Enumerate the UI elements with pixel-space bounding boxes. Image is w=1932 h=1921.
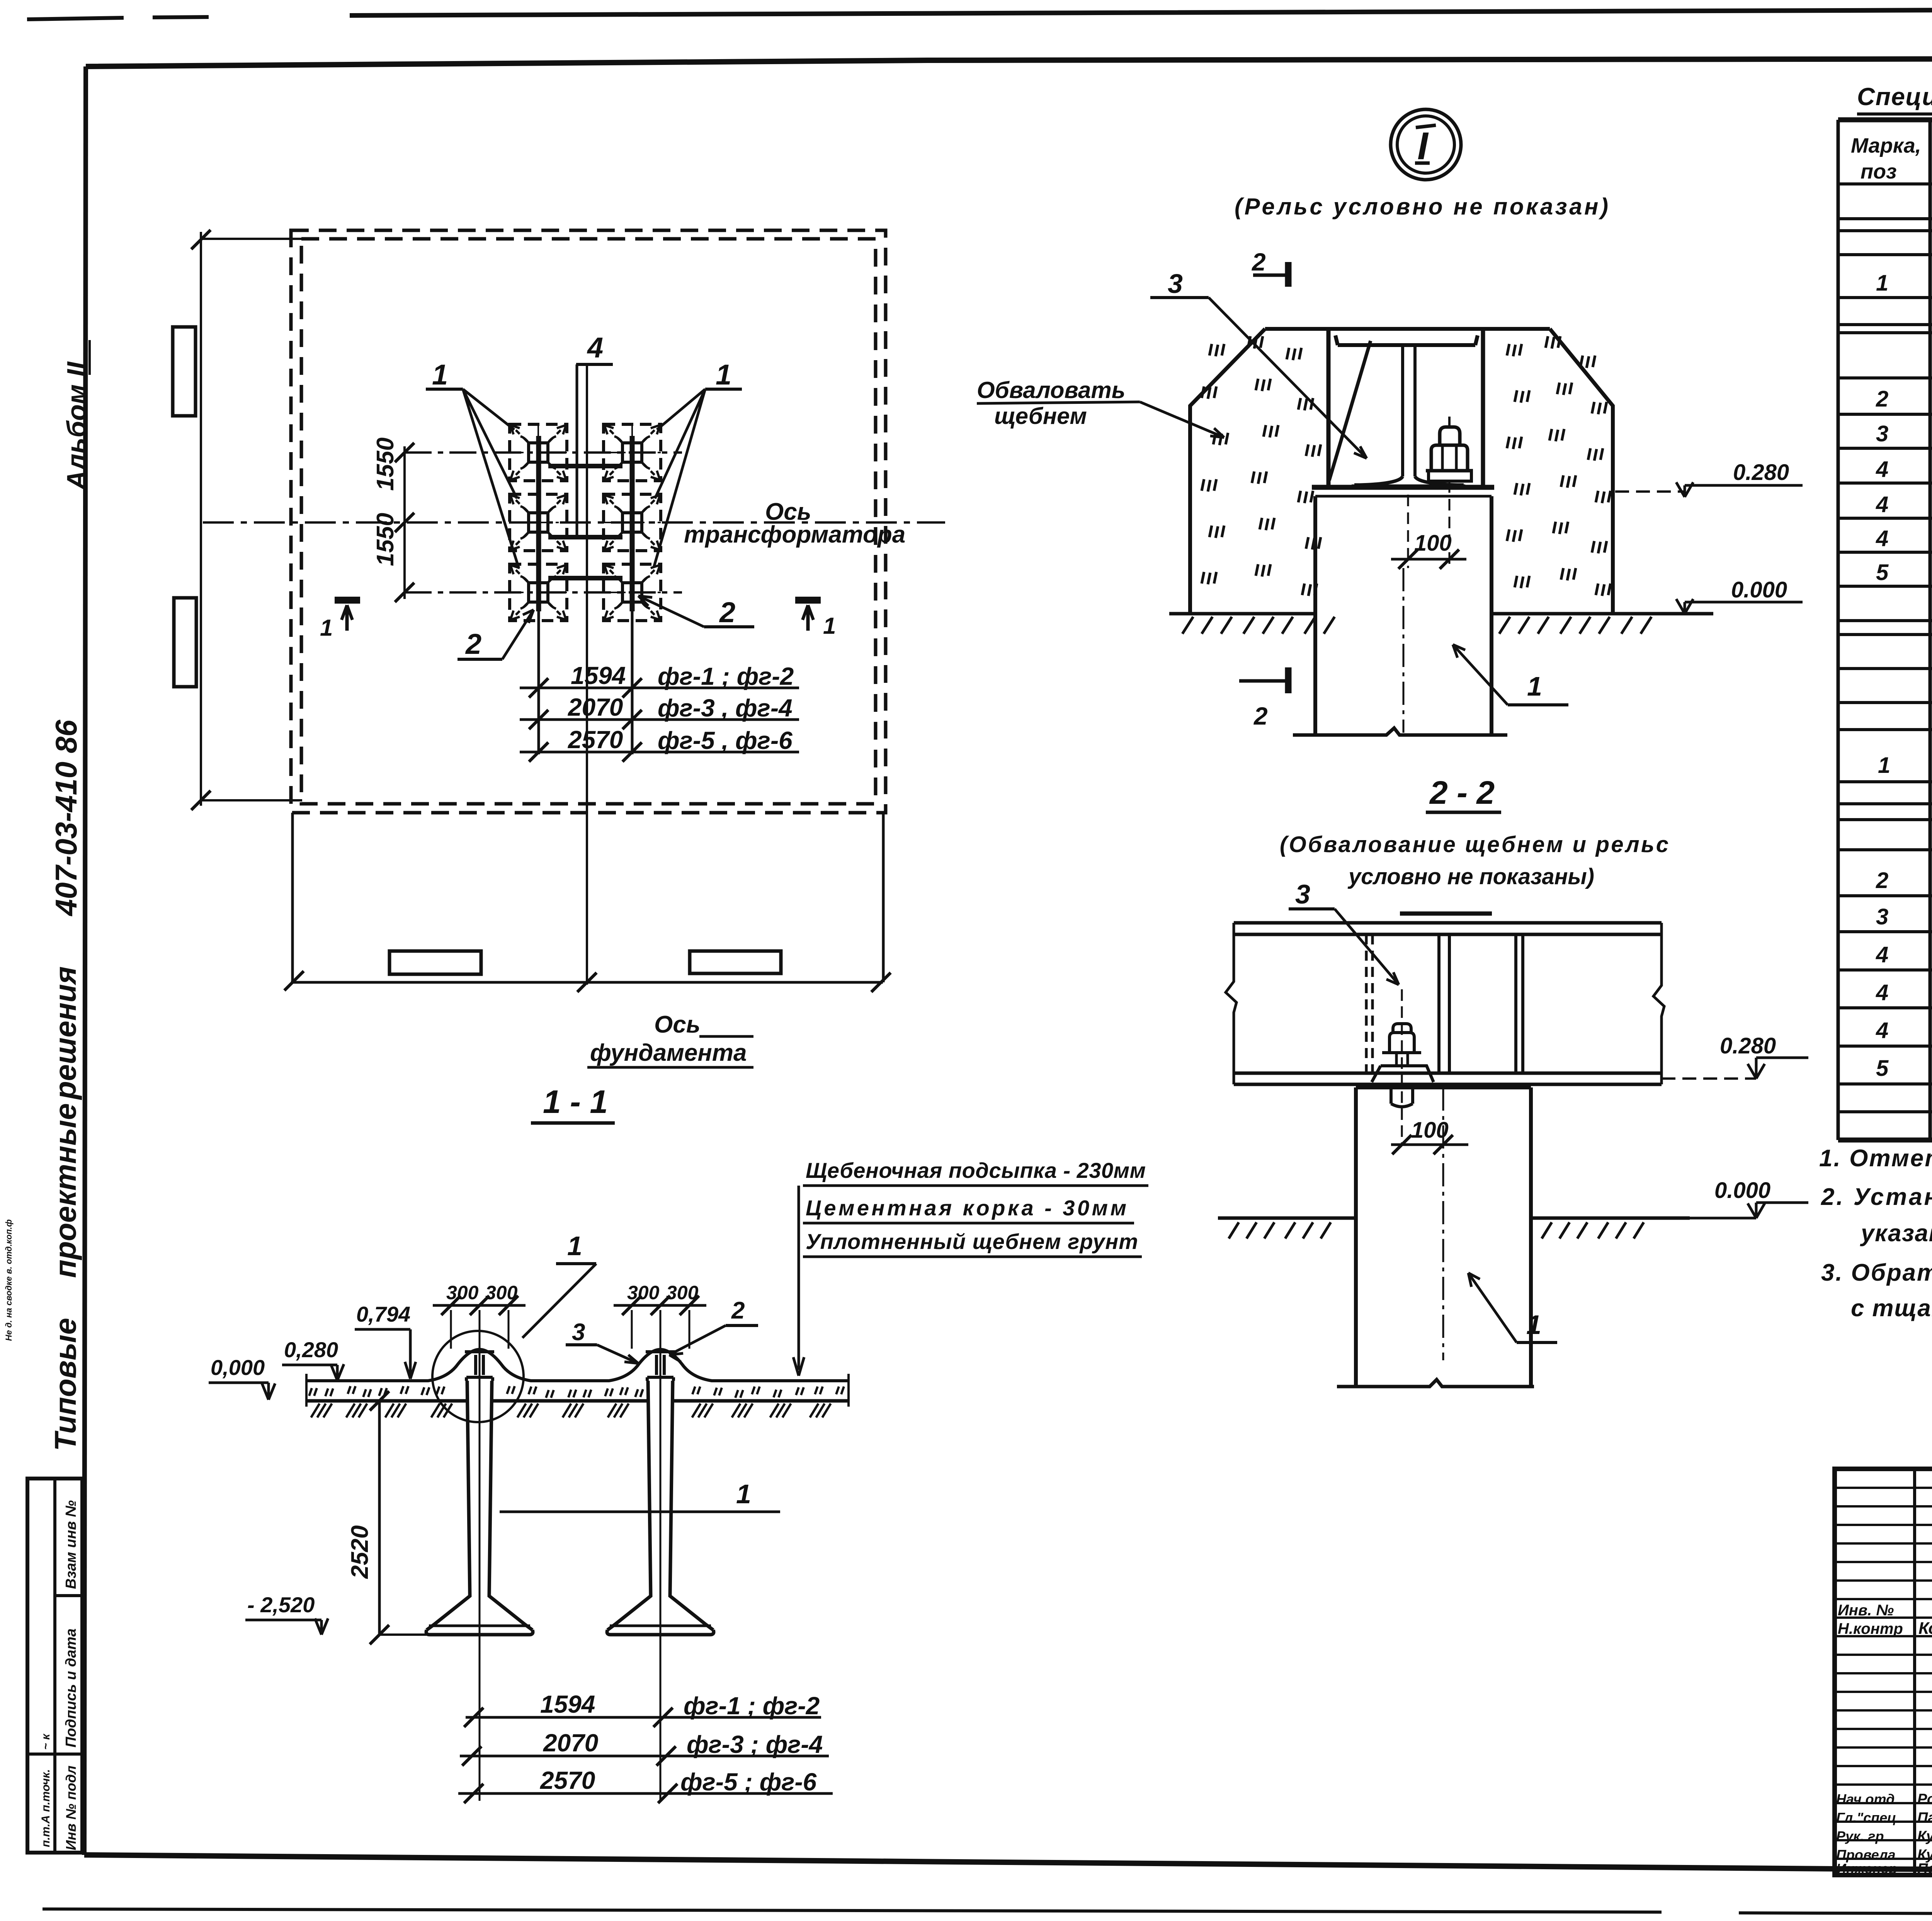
svg-text:указаниями СНиП3.02.01-83, п 2: указаниями СНиП3.02.01-83, п 2,1; 2,2; 2… — [1860, 1220, 1932, 1247]
svg-text:4: 4 — [1876, 942, 1888, 967]
svg-text:100: 100 — [1414, 531, 1452, 556]
svg-text:- 2,520: - 2,520 — [247, 1593, 315, 1617]
dim row 1594 — [466, 1716, 821, 1719]
ground line right — [1492, 612, 1713, 616]
gravel layer left end — [305, 1374, 308, 1407]
right post — [607, 1381, 714, 1635]
svg-text:2 - 2: 2 - 2 — [1429, 774, 1495, 811]
foundation sides 2-2 — [1356, 1087, 1531, 1385]
svg-text:фг-5 , фг-6: фг-5 , фг-6 — [658, 727, 793, 754]
rail channel walls — [1328, 331, 1483, 487]
svg-text:1: 1 — [1876, 271, 1888, 296]
mini table divider left col — [27, 1753, 55, 1756]
svg-text:1. Отметка 0,000 соответствует: 1. Отметка 0,000 соответствует отметке п… — [1819, 1145, 1932, 1172]
foundation top 2-2 — [1356, 1086, 1531, 1089]
foundation axis vertical — [586, 364, 588, 985]
svg-text:5: 5 — [1876, 1056, 1889, 1081]
elevation 0.280 2-2 — [1662, 1077, 1756, 1080]
svg-text:условно не показаны): условно не показаны) — [1347, 864, 1594, 889]
svg-text:(Рельс условно не показан): (Рельс условно не показан) — [1235, 194, 1608, 219]
gravel top line 0.280 with mounds — [306, 1349, 849, 1381]
anchor bolt — [1448, 417, 1451, 427]
svg-text:3: 3 — [1168, 269, 1183, 299]
dim row 2570 — [458, 1792, 833, 1795]
svg-text:поз: поз — [1861, 160, 1897, 183]
beam bottom flange — [1352, 476, 1465, 486]
table vertical lines — [1838, 120, 1932, 1140]
svg-text:Инв № подл: Инв № подл — [63, 1766, 79, 1850]
svg-text:2570: 2570 — [568, 726, 623, 754]
svg-text:2070: 2070 — [543, 1729, 598, 1757]
G_SEC11 — [209, 1084, 1148, 1803]
svg-text:2. Установку фундаментов произ: 2. Установку фундаментов производить в с… — [1821, 1184, 1932, 1210]
ground line 2-2 left — [1218, 1217, 1356, 1220]
svg-text:1550: 1550 — [372, 513, 399, 566]
svg-text:Типовые: Типовые — [48, 1318, 82, 1451]
beam axis dashed — [1407, 495, 1409, 568]
svg-text:300: 300 — [627, 1282, 660, 1303]
radiator rect left top — [173, 327, 196, 416]
foundation square B1 — [604, 424, 661, 481]
svg-text:0.000: 0.000 — [1714, 1178, 1770, 1203]
svg-text:Инв. №: Инв. № — [1838, 1602, 1894, 1619]
plan side verticals down to base line — [291, 813, 294, 982]
dim row 2570 — [520, 751, 799, 754]
dim row 2070 — [520, 718, 799, 721]
lug rect bottom left — [389, 951, 481, 974]
beam (rail) top flange — [1335, 335, 1478, 345]
svg-text:Курбанова: Курбанова — [1917, 1828, 1932, 1844]
base extension line — [291, 981, 883, 984]
bottom-left mini table box — [27, 1479, 82, 1853]
svg-text:с тщательным уплотнением каждо: с тщательным уплотнением каждого слоя до… — [1851, 1295, 1932, 1322]
svg-text:0,280: 0,280 — [284, 1337, 338, 1362]
svg-text:3: 3 — [1876, 904, 1888, 929]
svg-text:407-03-410 86: 407-03-410 86 — [49, 720, 83, 917]
svg-text:2: 2 — [731, 1297, 745, 1324]
svg-text:I: I — [1417, 124, 1429, 168]
svg-text:Провела: Провела — [1836, 1847, 1896, 1863]
foundation axis detail I — [1403, 568, 1405, 733]
svg-text:1: 1 — [1527, 671, 1542, 701]
beam right break — [1653, 923, 1664, 1084]
svg-text:трансформатора: трансформатора — [684, 521, 905, 548]
foundation square A2 — [510, 494, 567, 551]
svg-text:2070: 2070 — [568, 693, 623, 721]
svg-text:Альбом II: Альбом II — [61, 361, 92, 491]
foundation axis 2-2 — [1442, 1087, 1444, 1360]
transformer outline outer dashed rect — [291, 230, 886, 813]
ground line 0.000 — [306, 1399, 849, 1403]
G_NOTES — [1819, 1145, 1932, 1359]
rail extension lines down — [537, 611, 540, 754]
svg-text:Гл."спец: Гл."спец — [1836, 1810, 1896, 1826]
svg-text:2: 2 — [465, 628, 481, 660]
elevation 0.000 2-2 — [1690, 1217, 1756, 1220]
svg-text:2: 2 — [1253, 702, 1268, 730]
notes leader arrow — [798, 1186, 800, 1370]
svg-text:фундамента: фундамента — [590, 1040, 747, 1066]
foundation square B3 — [604, 564, 661, 621]
title block outline — [1835, 1469, 1932, 1875]
G_TABLE — [1838, 83, 1932, 1140]
foundation square A3 — [510, 564, 567, 621]
mini table divider 1 — [55, 1594, 82, 1597]
ground hatch 2-2 right — [1542, 1222, 1644, 1239]
detail mark circle I — [1391, 109, 1461, 180]
G_DETAIL_I — [977, 109, 1803, 735]
foundation bottom 2-2 — [1337, 1380, 1534, 1387]
beam bottom flange lines — [1234, 1073, 1662, 1084]
svg-text:3: 3 — [1295, 879, 1310, 909]
section mark 1 right — [795, 597, 821, 604]
svg-text:фг-1 ; фг-2: фг-1 ; фг-2 — [658, 662, 794, 690]
row1 centerline — [405, 451, 682, 454]
svg-text:1550: 1550 — [372, 437, 399, 491]
svg-text:Спецификация элементов на фунд: Спецификация элементов на фундаменты тип… — [1857, 83, 1932, 111]
svg-text:4: 4 — [1876, 1018, 1888, 1043]
rail on left post — [465, 1352, 494, 1381]
beam top flange lines — [1234, 923, 1662, 934]
rail line right column — [630, 436, 635, 611]
section mark 1 left — [335, 597, 360, 604]
svg-text:3: 3 — [1876, 421, 1888, 446]
beam top cover plate — [1400, 912, 1492, 916]
svg-text:Нач отд: Нач отд — [1836, 1791, 1895, 1807]
svg-text:Цементная корка - 30мм: Цементная корка - 30мм — [806, 1196, 1126, 1220]
svg-text:Взам инв №: Взам инв № — [63, 1500, 79, 1589]
tie row1 — [548, 464, 622, 468]
svg-text:Не д. на сводке в. отд.коп.ф: Не д. на сводке в. отд.коп.ф — [4, 1219, 14, 1341]
svg-text:Щебеночная подсыпка - 230мм: Щебеночная подсыпка - 230мм — [806, 1158, 1146, 1183]
svg-text:2: 2 — [1876, 868, 1888, 893]
beam left break — [1226, 923, 1236, 1084]
ground hatch 2-2 left — [1229, 1222, 1331, 1239]
svg-text:2570: 2570 — [540, 1766, 595, 1794]
left post — [426, 1381, 533, 1635]
stiffener right pair — [1516, 934, 1523, 1073]
gravel layer hatch — [309, 1386, 844, 1398]
svg-text:0.280: 0.280 — [1733, 460, 1789, 485]
svg-text:5: 5 — [1876, 560, 1889, 585]
svg-text:фг-1 ; фг-2: фг-1 ; фг-2 — [684, 1692, 820, 1720]
ground hatch under 0.000 — [311, 1404, 831, 1417]
svg-text:300: 300 — [446, 1282, 479, 1303]
svg-text:Марка,: Марка, — [1851, 134, 1921, 157]
svg-text:п.т.А п.точк.: п.т.А п.точк. — [39, 1769, 52, 1847]
svg-text:100: 100 — [1411, 1118, 1449, 1143]
svg-text:1: 1 — [320, 615, 333, 641]
svg-text:1: 1 — [716, 359, 731, 391]
axis of transformer (dash-dot) — [203, 521, 945, 524]
elevation 0.280 — [1615, 490, 1685, 493]
svg-text:(Обвалование щебнем и рельс: (Обвалование щебнем и рельс — [1280, 832, 1668, 857]
post axes — [480, 1310, 660, 1801]
dimension 2520 — [378, 1401, 381, 1635]
svg-text:~ к: ~ к — [39, 1733, 52, 1750]
svg-text:4: 4 — [1876, 457, 1888, 482]
dim row 1594 — [520, 687, 799, 689]
svg-text:Уплотненный щебнем грунт: Уплотненный щебнем грунт — [806, 1229, 1138, 1254]
frame top border — [86, 58, 1932, 66]
row3 centerline — [405, 591, 682, 594]
dim row 2070 — [460, 1755, 829, 1758]
svg-text:4: 4 — [1876, 980, 1888, 1005]
svg-text:1: 1 — [1878, 753, 1890, 778]
beam web — [1403, 347, 1415, 476]
svg-text:3. Обратную засыпку котлованов: 3. Обратную засыпку котлованов производи… — [1821, 1259, 1932, 1286]
svg-text:1: 1 — [432, 359, 448, 391]
mini table divider 2 — [55, 1753, 82, 1756]
foundation bottom with break — [1293, 728, 1507, 735]
svg-text:0.280: 0.280 — [1720, 1033, 1776, 1058]
transformer outline inner dashed rect — [301, 239, 876, 804]
svg-text:Рук. гр: Рук. гр — [1836, 1828, 1884, 1844]
svg-text:щебнем: щебнем — [994, 403, 1087, 429]
svg-text:Ось: Ось — [654, 1011, 701, 1038]
svg-text:1: 1 — [567, 1231, 582, 1261]
foundation block — [1315, 496, 1492, 733]
left grid horizontals — [1835, 1488, 1932, 1859]
svg-text:0.000: 0.000 — [1731, 577, 1787, 602]
sheet outer top edge — [27, 17, 209, 19]
svg-text:2520: 2520 — [347, 1525, 373, 1579]
gravel mound outline — [1190, 329, 1613, 614]
svg-text:решения: решения — [48, 966, 82, 1100]
foundation square B2 — [604, 494, 661, 551]
svg-text:4: 4 — [1876, 492, 1888, 517]
ground line 2-2 right — [1531, 1217, 1690, 1220]
sheet outer bottom edge — [43, 1909, 1932, 1915]
svg-text:проектные: проектные — [48, 1103, 82, 1278]
svg-text:1 - 1: 1 - 1 — [543, 1084, 608, 1120]
ground line left — [1169, 612, 1315, 616]
gravel layer right end — [847, 1374, 850, 1407]
G_SIDEBAR — [4, 340, 92, 1853]
radiator rect left bottom — [174, 598, 196, 687]
svg-text:Ковалев: Ковалев — [1918, 1619, 1932, 1638]
svg-text:Роменский: Роменский — [1917, 1791, 1932, 1807]
anchor bolt 2-2 — [1401, 989, 1403, 1145]
svg-text:Парфенев: Парфенев — [1917, 1810, 1932, 1826]
svg-text:Почкунцев: Почкунцев — [1917, 1861, 1932, 1877]
frame bottom border — [84, 1855, 1932, 1873]
diagonal brace — [1329, 341, 1371, 480]
dimension 1550 upper — [395, 443, 414, 602]
left overall dimension line — [200, 232, 202, 806]
svg-text:1594: 1594 — [540, 1690, 595, 1718]
stiffener hidden dashed pair — [1366, 934, 1372, 1073]
svg-text:фг-3 , фг-4: фг-3 , фг-4 — [658, 694, 793, 722]
svg-text:4: 4 — [587, 332, 603, 364]
tie row2 — [548, 535, 622, 539]
rail on right post — [646, 1352, 675, 1381]
section cut 2 bottom — [1239, 679, 1285, 683]
svg-text:1: 1 — [736, 1479, 751, 1509]
svg-text:Обваловать: Обваловать — [977, 377, 1125, 403]
svg-text:Подпись и дата: Подпись и дата — [63, 1628, 79, 1747]
svg-text:0,000: 0,000 — [211, 1355, 265, 1380]
svg-text:3: 3 — [572, 1319, 585, 1346]
G_PLAN — [173, 230, 945, 1067]
svg-text:Инженер: Инженер — [1836, 1861, 1897, 1877]
G_TITLEBLOCK — [1835, 1469, 1932, 1913]
lug rect bottom right — [690, 951, 781, 973]
svg-text:Н.контр: Н.контр — [1838, 1620, 1903, 1637]
ground hatch right — [1499, 617, 1651, 634]
svg-text:1: 1 — [823, 613, 836, 639]
svg-text:фг-5 ; фг-6: фг-5 ; фг-6 — [680, 1768, 817, 1796]
foundation square A1 — [510, 424, 567, 481]
G_SEC22 — [1218, 774, 1808, 1387]
table horizontal lines — [1838, 117, 1932, 123]
rail line left column — [536, 436, 541, 611]
stiffener center pair — [1439, 934, 1449, 1073]
svg-text:0,794: 0,794 — [356, 1302, 410, 1326]
svg-text:2: 2 — [1876, 386, 1888, 412]
detail circle I — [432, 1331, 524, 1422]
elevation 0.000 — [1676, 599, 1803, 614]
foundation top — [1312, 485, 1494, 490]
left grid verticals — [1915, 1469, 1932, 1875]
svg-text:1: 1 — [1526, 1310, 1541, 1340]
svg-text:2: 2 — [719, 596, 735, 628]
svg-text:фг-3 ; фг-4: фг-3 ; фг-4 — [687, 1730, 823, 1758]
svg-text:2: 2 — [1252, 248, 1266, 276]
svg-text:1594: 1594 — [571, 662, 626, 689]
tie row3 — [548, 576, 622, 580]
mini table inner vertical — [53, 1479, 56, 1853]
ground hatch left — [1182, 617, 1335, 634]
svg-text:4: 4 — [1876, 526, 1888, 551]
frame left border — [84, 66, 86, 1855]
